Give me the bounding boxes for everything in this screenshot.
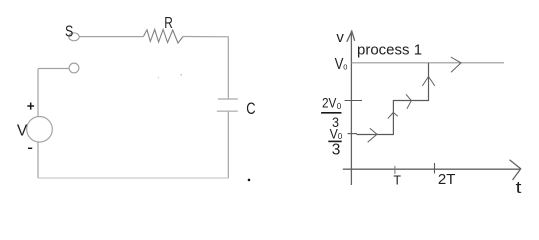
svg-text:0: 0 <box>343 63 347 72</box>
svg-text:process 1: process 1 <box>357 41 422 58</box>
svg-text:T: T <box>393 174 401 188</box>
svg-text:3: 3 <box>332 141 341 158</box>
svg-text:C: C <box>246 100 255 118</box>
svg-text:V: V <box>17 123 28 140</box>
svg-text:S: S <box>65 24 73 41</box>
svg-text:0: 0 <box>338 132 343 141</box>
svg-text:t: t <box>516 179 522 197</box>
svg-text:v: v <box>336 29 344 46</box>
svg-text:2T: 2T <box>438 171 456 188</box>
svg-text:R: R <box>164 15 173 32</box>
svg-text:0: 0 <box>337 102 342 111</box>
svg-text:2V: 2V <box>322 95 337 111</box>
